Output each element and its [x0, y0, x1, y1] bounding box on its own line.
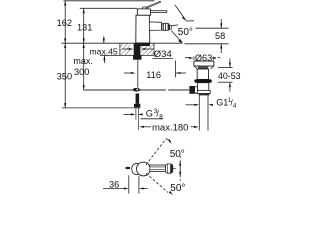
- deck hatch right: [141, 43, 154, 55]
- svg-text:116: 116: [146, 70, 161, 80]
- dashed 50 line upper: [146, 139, 166, 165]
- svg-text:8: 8: [159, 114, 163, 121]
- dimension 350 line: [64, 43, 66, 108]
- 50 deg annotation side view: upper leader: [175, 5, 186, 21]
- svg-text:50°: 50°: [170, 149, 185, 160]
- arrow lower: [169, 191, 173, 195]
- G 3/8 callout: [124, 113, 132, 115]
- lever horizontal rod: [151, 11, 167, 13]
- dimension 36: [128, 175, 130, 193]
- pop-up rod horizontal: [84, 89, 166, 91]
- dimension max.180: [139, 126, 144, 128]
- dimension 131 line: [83, 8, 85, 43]
- G 1 1/4 callout: [186, 104, 197, 106]
- deck hatch left: [120, 43, 130, 55]
- strainer dark band: [198, 67, 208, 70]
- flange taper: [194, 66, 213, 69]
- pop-up waste: flange cap: [194, 61, 214, 66]
- lever axis extension: [170, 168, 176, 170]
- waste body: [197, 83, 208, 91]
- supply stud G3/8: [136, 94, 140, 104]
- lever top view: [150, 165, 166, 172]
- svg-text:36: 36: [109, 180, 119, 190]
- svg-text:max.180: max.180: [152, 123, 188, 134]
- waste tailpipe: [198, 95, 200, 130]
- rod connector on waste: [189, 86, 194, 94]
- waste neck: [197, 69, 208, 79]
- dimension max.300 line: [83, 43, 85, 90]
- svg-text:G: G: [146, 108, 153, 118]
- dia 63 callout: [185, 57, 190, 59]
- dimension 162 line: [64, 1, 66, 43]
- dia 34 callout: [122, 48, 130, 50]
- waste shoulder: [196, 90, 211, 93]
- vertical dashed with double arrow: [179, 156, 181, 182]
- thread shadow band: [199, 93, 210, 95]
- deck top line: [61, 42, 182, 44]
- supply hose line: [137, 60, 139, 88]
- deck bottom line: [100, 54, 154, 56]
- dimension 40-53: [218, 66, 233, 68]
- svg-text:max.45: max.45: [90, 46, 118, 56]
- svg-text:4: 4: [233, 102, 237, 109]
- dimension max.45 arrows: [103, 36, 105, 43]
- dashed 50 line lower: [146, 173, 168, 192]
- svg-text:300: 300: [74, 67, 89, 77]
- lever raised: [146, 1, 161, 8]
- svg-text:50°: 50°: [170, 183, 185, 194]
- svg-text:40-53: 40-53: [218, 71, 241, 81]
- svg-text:G1: G1: [216, 97, 228, 107]
- shank through deck: [134, 43, 141, 55]
- horizontal ref line left of 50: [171, 25, 177, 26]
- svg-text:162: 162: [57, 18, 72, 28]
- hose end line (350 bottom): [62, 107, 140, 109]
- aerator body: [162, 23, 170, 30]
- aerator tip: [170, 25, 172, 29]
- svg-text:Ø63: Ø63: [195, 53, 212, 63]
- body circle: [137, 162, 151, 176]
- svg-text:max.: max.: [73, 56, 93, 66]
- svg-text:50°: 50°: [178, 27, 193, 38]
- svg-text:350: 350: [57, 72, 72, 82]
- spout ball ellipse: [132, 163, 142, 174]
- rod clamp fitting: [133, 88, 140, 92]
- dimension 58: [196, 27, 229, 29]
- dimension 116: [124, 72, 132, 74]
- arc arrow upper: [166, 139, 171, 143]
- faucet base dark band: [136, 43, 150, 46]
- svg-text:131: 131: [77, 22, 92, 32]
- waste o-ring seal: [194, 79, 211, 82]
- extension line aerator: [175, 61, 177, 78]
- extension line faucet top: [80, 7, 138, 9]
- faucet body: [136, 15, 150, 43]
- spout stub: [126, 167, 130, 169]
- lower leader: [171, 31, 182, 43]
- extension line top (lever top): [64, 0, 155, 2]
- faucet cap: [137, 9, 150, 15]
- svg-text:58: 58: [215, 31, 225, 41]
- spout tube: [149, 22, 161, 31]
